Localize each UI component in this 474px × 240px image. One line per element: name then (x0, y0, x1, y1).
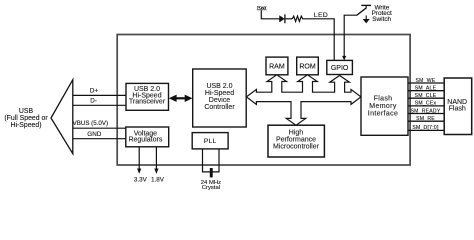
svg-text:D+: D+ (90, 87, 99, 94)
signal SM_WE (408, 78, 444, 84)
svg-text:SM_ALE: SM_ALE (415, 86, 437, 92)
svg-text:Performance: Performance (276, 137, 316, 144)
svg-text:Flash: Flash (449, 106, 466, 113)
svg-text:PLL: PLL (204, 138, 217, 145)
block PLL (192, 133, 228, 149)
bus arrow transceiver to controller (169, 95, 193, 102)
label USB (Full Speed or Hi-Speed) (4, 108, 48, 129)
LED D1 (280, 14, 285, 23)
block NAND Flash (444, 78, 472, 135)
signal SM_RE (408, 116, 444, 122)
wire Power to LED anode (261, 10, 279, 19)
crystal X1 (210, 168, 213, 177)
svg-text:Crystal: Crystal (202, 185, 220, 191)
block GPIO (327, 60, 353, 74)
svg-text:Hi-Speed: Hi-Speed (205, 90, 234, 97)
svg-text:Interface: Interface (368, 111, 398, 118)
svg-text:1.8V: 1.8V (151, 177, 165, 184)
wire 3.3V output (134, 147, 148, 184)
svg-text:Device: Device (209, 97, 231, 104)
svg-text:SM_CEx: SM_CEx (415, 101, 437, 107)
svg-text:Memory: Memory (369, 103, 397, 110)
wire resistor to GPIO (302, 19, 334, 61)
svg-text:High: High (289, 129, 304, 136)
block RAM (266, 57, 288, 75)
svg-text:USB 2.0: USB 2.0 (206, 83, 232, 90)
system bus with branch arrows (246, 75, 361, 125)
svg-text:Switch: Switch (372, 16, 391, 23)
signal SM_ALE (408, 86, 444, 92)
svg-text:SM_RE: SM_RE (416, 116, 435, 122)
svg-text:SM_READY: SM_READY (410, 108, 440, 114)
svg-text:SM_WE: SM_WE (416, 78, 436, 84)
svg-text:SM_D[7:0]: SM_D[7:0] (412, 125, 439, 131)
svg-text:GPIO: GPIO (331, 65, 349, 72)
svg-text:Power: Power (257, 5, 267, 10)
label Write Protect Switch (372, 4, 392, 23)
write protect switch SW1 (357, 5, 371, 15)
svg-text:LED: LED (314, 12, 328, 19)
svg-text:Controller: Controller (204, 104, 235, 111)
svg-text:SM_CLE: SM_CLE (415, 93, 437, 99)
block USB 2.0 Hi-Speed Transceiver (126, 83, 169, 110)
wire GND (73, 138, 126, 140)
block USB 2.0 Hi-Speed Device Controller (193, 69, 247, 127)
svg-text:GND: GND (87, 131, 101, 138)
crystal X1 wires (203, 149, 220, 172)
wire switch to GPIO (342, 15, 357, 60)
svg-text:Microcontroller: Microcontroller (273, 144, 320, 151)
wire LED cathode to resistor (285, 18, 292, 20)
wire 1.8V output (151, 147, 165, 184)
signal SM_CLE (408, 93, 444, 99)
block High Performance Microcontroller (268, 125, 324, 157)
block Voltage Regulators (126, 127, 169, 147)
signal SM_D[7:0] (408, 125, 444, 131)
resistor R1 (292, 16, 302, 21)
svg-text:(Full Speed or: (Full Speed or (4, 115, 48, 122)
svg-text:Transceiver: Transceiver (129, 99, 166, 106)
ground (363, 15, 370, 23)
label 24 MHz Crystal (201, 180, 221, 191)
svg-text:USB: USB (19, 108, 34, 115)
svg-text:RAM: RAM (269, 64, 285, 71)
svg-text:VBUS (5.0V): VBUS (5.0V) (73, 120, 108, 127)
block Flash Memory Interface (361, 77, 408, 135)
net label Power (257, 5, 267, 10)
svg-text:Hi-Speed): Hi-Speed) (10, 122, 41, 129)
chip boundary box (117, 35, 410, 166)
svg-text:D-: D- (90, 98, 97, 105)
svg-text:ROM: ROM (299, 64, 316, 71)
svg-text:3.3V: 3.3V (134, 177, 148, 184)
svg-text:Flash: Flash (374, 96, 393, 103)
wire D+ (73, 94, 126, 96)
USB connector symbol (51, 80, 73, 154)
signal SM_READY (408, 108, 444, 114)
block ROM (297, 57, 319, 75)
wire VBUS (73, 127, 126, 129)
svg-text:Regulators: Regulators (128, 137, 162, 144)
signal SM_CEx (408, 101, 444, 107)
wire D- (73, 104, 126, 106)
